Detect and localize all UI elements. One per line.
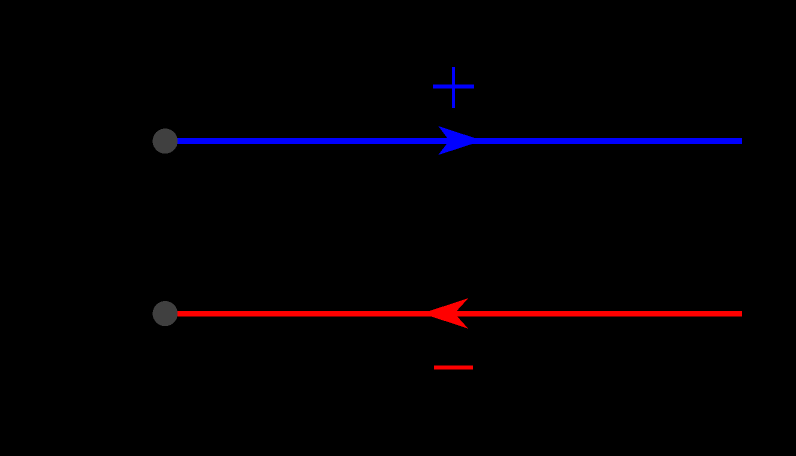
- node: bottom-left terminal dot: [153, 301, 178, 326]
- node: top-left terminal dot: [153, 129, 178, 154]
- arrowhead: top current direction (right): [438, 126, 482, 155]
- arrowhead: bottom current direction (left): [422, 298, 468, 329]
- wire: bottom conductor (red): [165, 311, 742, 317]
- wire: top conductor (blue): [165, 138, 742, 144]
- label: plus polarity (+): [433, 67, 474, 108]
- label: minus polarity (-): [434, 366, 473, 370]
